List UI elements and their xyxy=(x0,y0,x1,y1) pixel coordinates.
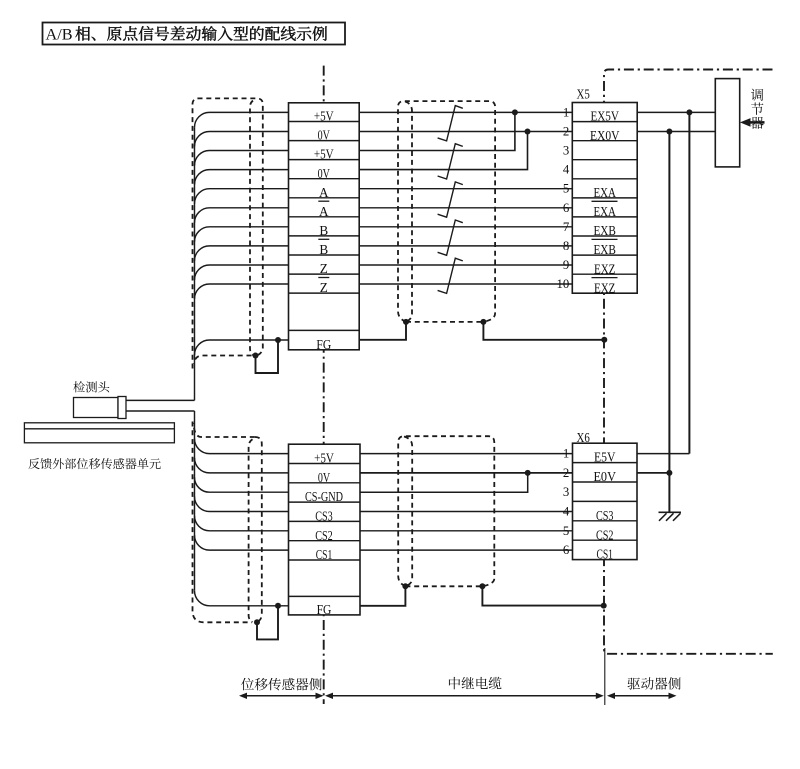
wire sensor shield drain hook (lower) xyxy=(257,606,278,640)
svg-text:3: 3 xyxy=(563,144,569,158)
svg-text:X5: X5 xyxy=(577,87,591,102)
svg-text:EXB: EXB xyxy=(593,242,616,257)
svg-text:CS3: CS3 xyxy=(596,508,614,523)
junction relay shield right (upper) xyxy=(480,319,486,325)
svg-text:X6: X6 xyxy=(577,430,591,445)
junction sensor shield convergence (upper) xyxy=(253,353,259,359)
svg-text:6: 6 xyxy=(563,201,570,215)
svg-text:A: A xyxy=(319,185,329,200)
wire upper row 2 to X5 pin 2 xyxy=(359,131,572,133)
wire 0V (second) jog up to pin 2 xyxy=(359,131,527,169)
svg-text:4: 4 xyxy=(563,505,570,519)
svg-text:CS1: CS1 xyxy=(596,547,613,562)
junction CS-GND to 0V xyxy=(525,470,531,476)
svg-text:5: 5 xyxy=(563,524,569,538)
twisted pair symbol 2 xyxy=(438,144,463,179)
svg-text:CS2: CS2 xyxy=(596,527,614,542)
detection head body xyxy=(74,398,119,418)
label detection head xyxy=(73,381,109,392)
wire upper row 3 left curve into bundle xyxy=(195,151,289,166)
dimension arrow sensor side xyxy=(241,695,322,697)
dimension arrow driver side xyxy=(609,695,674,697)
wire +5V (second) jog up to pin 1 xyxy=(359,112,515,150)
shield of upper relay cable (dashed) xyxy=(398,101,495,322)
svg-text:EXZ: EXZ xyxy=(594,280,616,295)
connector X6 terminal block xyxy=(573,443,638,559)
label displacement sensor side xyxy=(241,678,322,691)
svg-text:0V: 0V xyxy=(318,166,331,181)
svg-text:EX0V: EX0V xyxy=(590,128,620,143)
wire X6 pin2 to E0V vertical xyxy=(637,472,669,474)
regulator box U1 xyxy=(715,79,739,167)
wire EX0V from X5 pin2 to regulator xyxy=(637,130,715,132)
chassis ground symbol xyxy=(659,511,682,513)
linear scale body xyxy=(24,423,174,443)
svg-text:E0V: E0V xyxy=(593,469,616,484)
wire lower row 6 left curve into bundle xyxy=(195,535,289,550)
net boundary chain line (sensor side), vertical at x=323.7 xyxy=(323,66,325,704)
wire FG (upper) left segment into bundle xyxy=(195,340,289,355)
net boundary chain line (driver side) with top and bottom corners xyxy=(604,70,773,654)
wire upper row 6 to X5 pin 6 xyxy=(359,207,572,209)
wire lower row 1 left curve into bundle xyxy=(195,439,289,454)
label regulator (vertical) xyxy=(751,89,764,129)
svg-text:2: 2 xyxy=(563,124,569,138)
twisted pair symbol 3 xyxy=(438,182,463,217)
wire upper row 2 left curve into bundle xyxy=(195,132,289,147)
junction 0V pair merge xyxy=(525,128,531,134)
wire upper row 7 to X5 pin 7 xyxy=(359,226,572,228)
svg-text:1: 1 xyxy=(563,447,569,461)
svg-text:2: 2 xyxy=(563,466,569,480)
svg-text:9: 9 xyxy=(563,258,569,272)
wire E5V vertical (X5 pin1 down to X6 pin1) xyxy=(688,112,690,453)
svg-text:8: 8 xyxy=(563,239,569,253)
wire lower row 1 to X6 xyxy=(360,453,573,455)
wire CS-GND jog up to 0V xyxy=(360,473,528,492)
wire sensor shield drain hook (upper) xyxy=(256,340,279,373)
wire bundle vertical (lower cable) xyxy=(194,411,196,591)
junction relay shield left (lower) xyxy=(402,583,408,589)
svg-text:CS2: CS2 xyxy=(315,528,333,543)
junction drain to FG wire (lower) xyxy=(275,603,281,609)
connector X5 terminal block xyxy=(572,103,637,294)
junction E0V at X6 pin2 xyxy=(666,470,672,476)
wire from detection head (top lead) xyxy=(126,399,195,401)
junction EX0V branch xyxy=(666,128,672,134)
label relay cable xyxy=(449,677,502,690)
wire upper row 5 to X5 pin 5 xyxy=(359,188,572,190)
junction EX5V branch xyxy=(686,109,692,115)
dimension tick driver side xyxy=(604,648,606,705)
junction drain to FG wire (upper) xyxy=(275,337,281,343)
twisted pair symbol 5 xyxy=(438,258,463,293)
svg-text:EXA: EXA xyxy=(593,204,616,219)
svg-text:B: B xyxy=(319,242,328,257)
svg-text:CS1: CS1 xyxy=(316,547,333,562)
wire upper row 8 left curve into bundle xyxy=(195,246,289,261)
wire upper row 9 to X5 pin 9 xyxy=(359,264,572,266)
wire lower row 4 to X6 xyxy=(360,511,573,513)
svg-text:FG: FG xyxy=(316,337,331,352)
wire EX5V from X5 pin1 to regulator xyxy=(637,111,715,113)
svg-text:EXB: EXB xyxy=(593,223,616,238)
wire upper row 10 left curve into bundle xyxy=(195,284,289,299)
svg-text:E5V: E5V xyxy=(594,450,616,465)
svg-text:A/B: A/B xyxy=(46,26,73,44)
svg-text:CS-GND: CS-GND xyxy=(305,489,343,504)
wire X6 pin1 to E5V vertical xyxy=(637,453,689,455)
svg-text:7: 7 xyxy=(563,220,570,234)
wire lower row 5 left curve into bundle xyxy=(195,516,289,531)
svg-text:FG: FG xyxy=(317,602,332,617)
junction on driver chain (upper drain) xyxy=(601,337,607,343)
wire bundle vertical (upper cable to detection head) xyxy=(194,127,196,400)
wire 0V lower to X6 pin2 (heavy) xyxy=(360,472,573,474)
svg-text:6: 6 xyxy=(563,543,570,557)
svg-text:4: 4 xyxy=(563,163,570,177)
junction relay shield left (upper) xyxy=(403,319,409,325)
svg-text:5: 5 xyxy=(563,182,569,196)
svg-text:EXZ: EXZ xyxy=(594,261,616,276)
wire relay shield (upper) to driver-side chassis xyxy=(483,322,604,340)
svg-text:3: 3 xyxy=(563,485,569,499)
wire FG (lower) left segment into bundle xyxy=(195,591,289,606)
svg-text:+5V: +5V xyxy=(314,147,334,162)
junction +5V pair merge xyxy=(512,109,518,115)
wire lower row 4 left curve into bundle xyxy=(195,497,289,512)
shield of lower relay cable (dashed) xyxy=(398,436,494,586)
connector (sensor unit upper terminal block) xyxy=(289,103,360,350)
svg-text:+5V: +5V xyxy=(314,451,334,466)
dimension arrow relay cable xyxy=(327,695,601,697)
connector (sensor unit lower terminal block) xyxy=(289,444,361,615)
svg-text:+5V: +5V xyxy=(314,109,334,124)
wire upper row 7 left curve into bundle xyxy=(195,227,289,242)
svg-text:EXA: EXA xyxy=(593,185,616,200)
svg-text:Z: Z xyxy=(320,280,328,295)
shield of upper sensor cable (dashed) xyxy=(193,98,263,368)
wire upper row 10 to X5 pin 10 xyxy=(359,283,572,285)
svg-text:CS3: CS3 xyxy=(315,509,333,524)
wire lower row 5 to X6 xyxy=(360,530,573,532)
wire upper row 5 left curve into bundle xyxy=(195,189,289,204)
junction relay shield right (lower) xyxy=(479,583,485,589)
wire FG (upper) to relay shield xyxy=(359,322,406,340)
svg-text:0V: 0V xyxy=(318,470,331,485)
detection head end cap xyxy=(118,397,126,419)
arrow into regulator xyxy=(740,118,751,127)
wire upper row 4 left curve into bundle xyxy=(195,170,289,185)
junction sensor shield convergence (lower) xyxy=(254,619,260,625)
svg-text:EX5V: EX5V xyxy=(590,109,619,124)
label feedback external displacement sensor unit xyxy=(28,458,160,469)
junction on driver chain (lower drain) xyxy=(601,603,607,609)
wire upper row 1 left curve into bundle xyxy=(195,112,289,127)
wire lower row 2 left curve into bundle xyxy=(195,458,289,473)
shield of lower sensor cable (dashed) xyxy=(193,422,253,623)
wire E0V vertical (X5 pin2 down to X6 pin2 and ground) xyxy=(668,131,670,512)
svg-text:1: 1 xyxy=(563,105,569,119)
twisted pair symbol 1 xyxy=(438,106,463,141)
wire upper row 1 to X5 pin 1 xyxy=(359,111,572,113)
wire upper row 6 left curve into bundle xyxy=(195,208,289,223)
wire upper row 9 left curve into bundle xyxy=(195,265,289,280)
wire from detection head (bottom lead) xyxy=(126,410,195,412)
svg-text:Z: Z xyxy=(320,261,328,276)
wire lower row 3 left curve into bundle xyxy=(195,477,289,492)
title box xyxy=(43,23,346,45)
wire FG (lower) to relay shield xyxy=(360,586,405,606)
wire upper row 8 to X5 pin 8 xyxy=(359,245,572,247)
twisted pair symbol 4 xyxy=(438,220,463,255)
svg-text:0V: 0V xyxy=(318,128,331,143)
svg-text:A: A xyxy=(319,204,329,219)
label driver side xyxy=(627,677,680,690)
wire lower row 6 to X6 xyxy=(360,549,573,551)
svg-text:10: 10 xyxy=(557,277,570,291)
wire relay shield (lower) to driver-side chassis xyxy=(482,586,603,605)
svg-text:B: B xyxy=(319,223,328,238)
